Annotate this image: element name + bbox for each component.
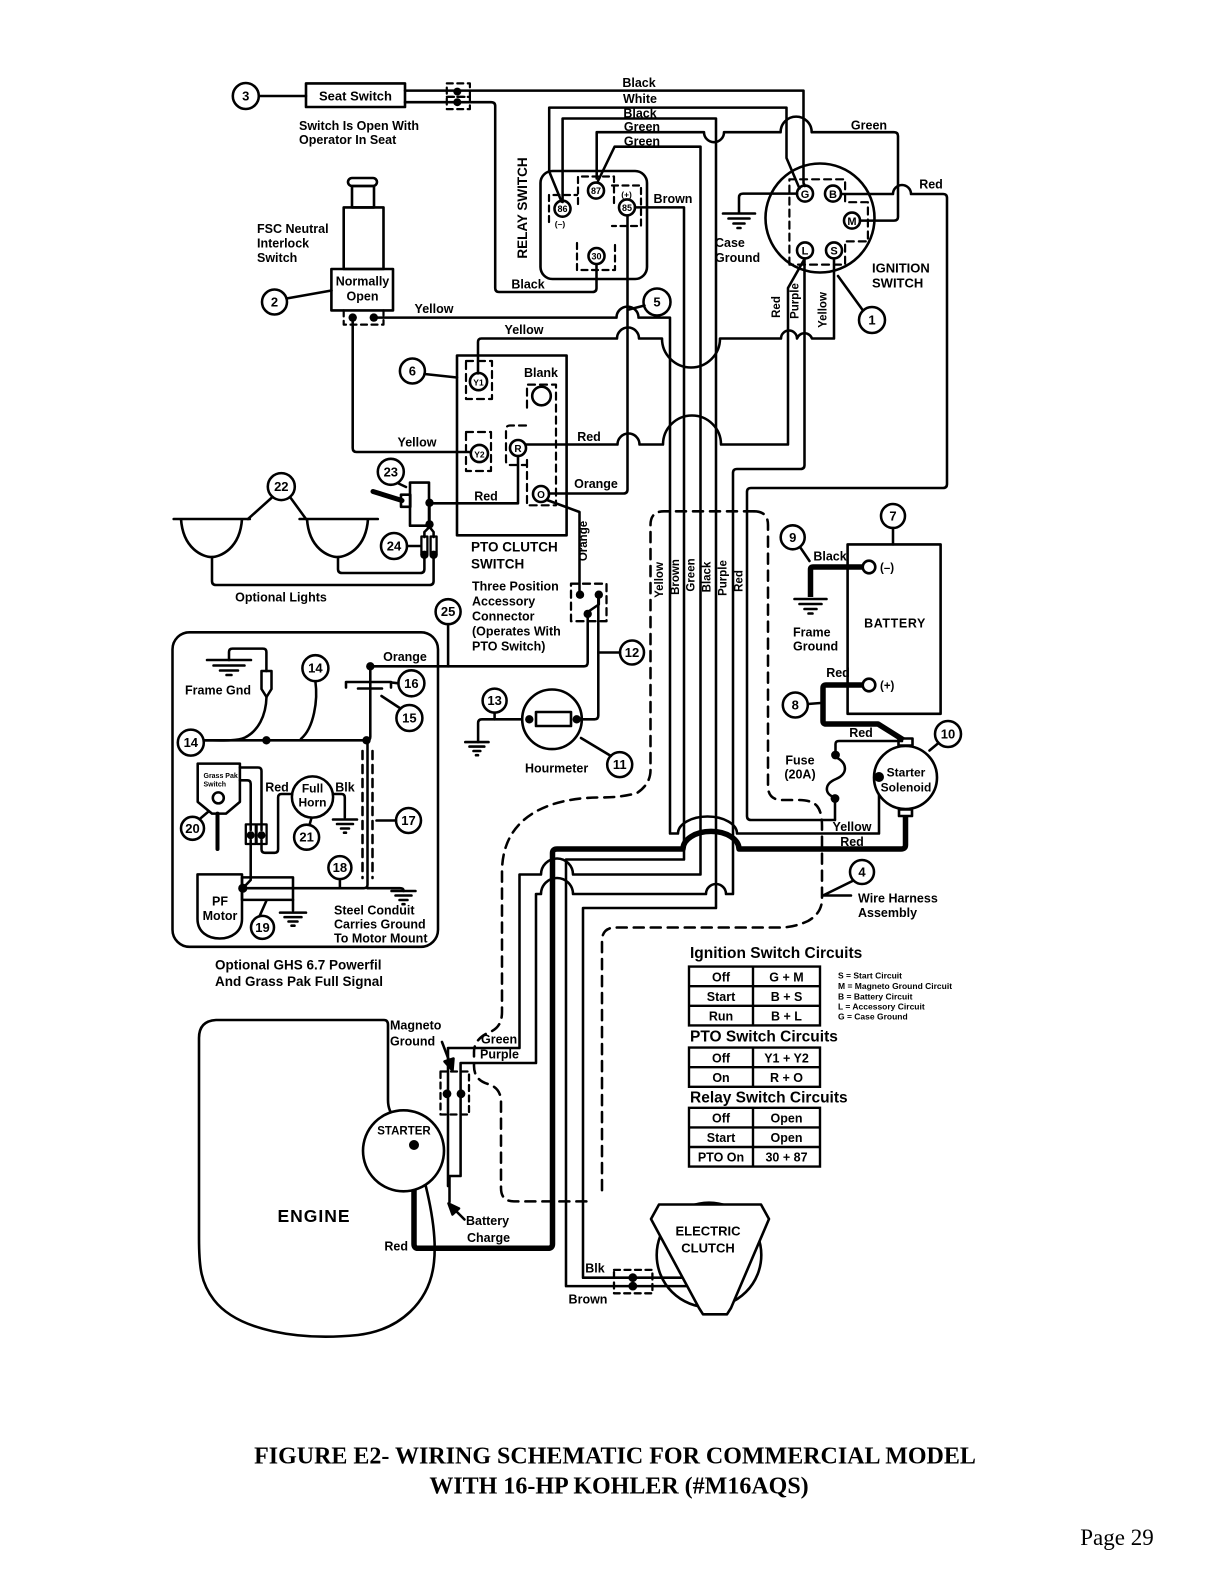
PTO terminal O <box>533 486 549 502</box>
callout circle 8 <box>783 693 808 718</box>
magneto ground arrow <box>442 1042 450 1063</box>
svg-text:23: 23 <box>384 464 398 479</box>
svg-text:Seat Switch: Seat Switch <box>319 89 392 104</box>
leader 2 <box>287 291 332 299</box>
callout circle 22 <box>268 473 295 500</box>
leader 22 left <box>248 497 273 519</box>
callout circle 15 <box>396 705 422 731</box>
svg-text:Purple: Purple <box>790 283 802 319</box>
svg-text:86: 86 <box>557 204 567 214</box>
PTO terminal Y1 <box>470 373 487 390</box>
svg-text:85: 85 <box>622 203 632 213</box>
svg-text:16: 16 <box>404 676 418 691</box>
wire red heavy (battery positive to starter solenoid top) <box>823 685 904 740</box>
svg-text:B = Battery Circuit: B = Battery Circuit <box>838 992 913 1002</box>
svg-text:Off: Off <box>712 1112 731 1126</box>
svg-text:O: O <box>537 490 545 501</box>
hourmeter terminal dots <box>525 715 581 723</box>
ignition terminal B <box>825 186 841 202</box>
svg-text:Open: Open <box>347 290 379 304</box>
svg-text:Carries Ground: Carries Ground <box>334 918 426 932</box>
leader 13 <box>493 713 496 720</box>
svg-text:Full: Full <box>302 782 323 796</box>
wire (hourmeter left terminal to ground) <box>478 719 529 742</box>
svg-text:Y1: Y1 <box>473 377 484 387</box>
svg-text:Open: Open <box>771 1112 803 1126</box>
wire harness assembly dashed outline right side <box>602 511 822 1192</box>
svg-text:Starter: Starter <box>887 766 926 780</box>
svg-text:PTO On: PTO On <box>698 1151 744 1165</box>
leader 22 right <box>290 497 306 519</box>
svg-text:L: L <box>802 246 809 258</box>
svg-text:R: R <box>514 444 522 455</box>
svg-text:RELAY SWITCH: RELAY SWITCH <box>515 157 530 258</box>
junction dots seat connector <box>453 88 461 107</box>
svg-text:Red: Red <box>840 835 864 849</box>
svg-text:Black: Black <box>813 550 846 564</box>
svg-text:17: 17 <box>401 813 415 828</box>
svg-text:8: 8 <box>792 698 799 713</box>
callout circle 6 <box>400 359 425 384</box>
svg-text:Page 29: Page 29 <box>1080 1525 1153 1550</box>
svg-text:PF: PF <box>212 895 228 909</box>
svg-text:Red: Red <box>265 781 289 795</box>
svg-text:Assembly: Assembly <box>858 906 917 920</box>
svg-text:B: B <box>829 189 837 201</box>
svg-text:Ground: Ground <box>390 1035 435 1049</box>
wire orange (PTO O to relay 85) <box>549 216 628 494</box>
svg-text:18: 18 <box>333 860 347 875</box>
wire (optional lights right lamp to connector 24) <box>338 555 424 573</box>
svg-text:Wire Harness: Wire Harness <box>858 892 938 906</box>
wire (connector right cell to full horn red) <box>262 794 293 853</box>
svg-text:Brown: Brown <box>654 192 693 206</box>
wire (ignition G to case ground) <box>739 194 797 213</box>
svg-text:2: 2 <box>271 295 278 310</box>
ground symbol (full horn) <box>333 820 357 833</box>
PTO terminal Y2 <box>471 445 488 462</box>
leader 3 <box>259 95 306 98</box>
svg-text:Yellow: Yellow <box>654 562 666 598</box>
svg-text:Blank: Blank <box>524 366 558 380</box>
svg-text:Magneto: Magneto <box>390 1019 442 1033</box>
svg-text:6: 6 <box>409 364 416 379</box>
frame ground symbol (battery) <box>795 599 827 614</box>
FSC neutral interlock switch body <box>348 178 377 186</box>
leader 8 <box>808 703 821 704</box>
starter terminal dot <box>409 1140 419 1150</box>
wire purple (ignition L to harness purple to starter magneto) <box>450 259 805 1203</box>
starter motor circle <box>363 1110 444 1191</box>
wire orange (PTO O to accessory connector) <box>547 500 580 591</box>
svg-text:Off: Off <box>712 971 731 985</box>
svg-text:Charge: Charge <box>467 1231 510 1245</box>
leader 1 <box>838 276 863 311</box>
wire (accessory connector to hourmeter) <box>577 598 599 719</box>
accessory connector dots <box>576 591 603 619</box>
FSC switch terminal block (dashed) <box>344 310 384 324</box>
engine outline <box>199 1020 435 1337</box>
svg-text:24: 24 <box>387 539 402 554</box>
svg-text:(20A): (20A) <box>784 768 815 782</box>
relay terminal 30 <box>589 248 605 264</box>
seat switch box <box>306 83 405 107</box>
grass pak switch body <box>198 764 240 814</box>
svg-text:Switch: Switch <box>204 782 227 789</box>
svg-text:PTO Switch): PTO Switch) <box>472 640 545 654</box>
wire (full horn black to ground) <box>333 794 345 818</box>
callout circle 17 <box>396 808 421 833</box>
frame gnd ground symbol (GHS) <box>207 660 251 675</box>
wire black heavy (battery negative to frame ground) <box>811 567 863 597</box>
leader 21 <box>310 818 312 825</box>
ignition terminal L <box>797 242 813 258</box>
wire black (seat switch to relay 30) <box>405 102 597 292</box>
wire (conduit ground run) <box>368 888 404 891</box>
wire red (PTO R to ignition L) <box>526 259 805 445</box>
leader 6 <box>425 374 458 378</box>
svg-text:B + L: B + L <box>771 1010 802 1024</box>
svg-text:20: 20 <box>185 821 199 836</box>
magneto connector dots <box>443 1089 466 1098</box>
svg-text:Steel Conduit: Steel Conduit <box>334 904 415 918</box>
table PTO switch circuits grid <box>689 1048 820 1087</box>
wire (14 top J curve) <box>301 682 316 739</box>
callout circle 23 <box>378 459 404 485</box>
battery box <box>848 544 941 713</box>
case ground symbol <box>723 214 755 229</box>
svg-text:Switch Is Open With: Switch Is Open With <box>299 119 419 133</box>
svg-text:Green: Green <box>624 135 660 149</box>
wire (float sender J curve to junction) <box>205 697 267 740</box>
svg-text:ELECTRIC: ELECTRIC <box>676 1224 742 1239</box>
svg-text:Ground: Ground <box>793 640 838 654</box>
svg-text:Red: Red <box>734 570 746 592</box>
grass pak connector dots <box>247 831 266 839</box>
svg-text:Open: Open <box>771 1131 803 1145</box>
svg-text:PTO CLUTCH: PTO CLUTCH <box>471 540 558 555</box>
svg-text:White: White <box>623 92 657 106</box>
FSC terminal dots <box>349 313 378 321</box>
grass pak connector cells <box>246 824 256 844</box>
callout circle 10 <box>935 721 961 747</box>
svg-text:Normally: Normally <box>336 275 390 289</box>
ignition terminal S <box>826 242 842 258</box>
svg-text:(–): (–) <box>880 563 894 575</box>
lights connector 24 bars <box>421 537 427 555</box>
svg-text:19: 19 <box>255 920 269 935</box>
callout circle 7 <box>881 504 905 528</box>
svg-text:Red: Red <box>577 430 601 444</box>
svg-text:12: 12 <box>625 645 639 660</box>
wire black 2 (relay 86 to harness black to electric clutch Blk) <box>563 119 716 1278</box>
PTO terminal R <box>510 440 526 456</box>
svg-text:S = Start Circuit: S = Start Circuit <box>838 971 902 981</box>
leader 17 <box>377 819 397 822</box>
seat switch connector (dashed, 2 cells) <box>447 83 470 109</box>
ground symbol below hourmeter wire <box>465 742 488 755</box>
leader 19 <box>260 901 267 917</box>
svg-text:14: 14 <box>308 661 323 676</box>
svg-text:Red: Red <box>919 178 943 192</box>
wire red (fuse top to starter solenoid) <box>835 741 902 819</box>
svg-text:S: S <box>830 246 837 258</box>
svg-text:30 + 87: 30 + 87 <box>765 1151 807 1165</box>
svg-text:(+): (+) <box>880 681 895 693</box>
wire white (relay 86 to ignition G) <box>549 108 799 202</box>
grass pak float rod <box>216 814 220 849</box>
svg-text:Three Position: Three Position <box>472 580 559 594</box>
svg-text:Frame Gnd: Frame Gnd <box>185 684 251 698</box>
battery positive terminal <box>863 679 876 692</box>
wire (PF terminal box to ground) <box>292 900 295 911</box>
svg-text:Start: Start <box>707 990 736 1004</box>
ignition terminal G <box>797 186 813 202</box>
svg-text:PTO Switch Circuits: PTO Switch Circuits <box>690 1029 838 1046</box>
callout circle 2 <box>262 290 287 315</box>
wire red (PTO R to lights toggle switch) <box>430 456 519 503</box>
svg-text:Green: Green <box>686 558 698 591</box>
svg-text:Black: Black <box>702 561 714 592</box>
svg-text:Brown: Brown <box>569 1293 608 1307</box>
svg-text:Battery: Battery <box>466 1214 509 1228</box>
svg-text:G = Case Ground: G = Case Ground <box>838 1012 908 1022</box>
svg-text:G: G <box>801 189 810 201</box>
svg-text:Connector: Connector <box>472 610 535 624</box>
wire (optional lights left lamp to connector 24) <box>212 555 434 585</box>
svg-text:SWITCH: SWITCH <box>471 557 524 572</box>
svg-text:ENGINE: ENGINE <box>277 1206 350 1226</box>
float sender element <box>262 671 272 697</box>
callout circle 18 <box>328 856 351 879</box>
callout circle 21 <box>294 825 319 850</box>
svg-text:Yellow: Yellow <box>505 323 544 337</box>
svg-text:(–): (–) <box>555 219 566 229</box>
svg-text:IGNITION: IGNITION <box>872 261 930 276</box>
svg-text:Hourmeter: Hourmeter <box>525 762 588 776</box>
callout circle 25 <box>436 599 461 624</box>
svg-text:Grass Pak: Grass Pak <box>204 773 238 780</box>
wire red (ignition B to fuse, battery circuit) <box>747 185 947 820</box>
fuse 20A element <box>827 757 845 798</box>
svg-text:Red: Red <box>849 726 873 740</box>
leader 15 <box>382 696 401 709</box>
wire (grass pak to connector right cell) <box>240 768 262 831</box>
svg-text:To Motor Mount: To Motor Mount <box>334 932 428 946</box>
svg-text:Purple: Purple <box>718 560 730 596</box>
grass pak switch knob <box>213 792 224 803</box>
callout circle 11 <box>607 752 632 777</box>
callout circle 5 <box>644 289 671 316</box>
leader 12 <box>598 651 620 654</box>
starter solenoid circle <box>874 746 937 809</box>
svg-text:L = Accessory Circuit: L = Accessory Circuit <box>838 1002 925 1012</box>
wire green 2 (relay 87 to harness green to starter magneto) <box>448 147 701 1186</box>
leader 4 <box>823 881 854 896</box>
svg-text:14: 14 <box>184 735 199 750</box>
optional lights left lamp <box>174 519 250 557</box>
callout circle 14 left <box>178 730 204 756</box>
wire red heavy (starter solenoid bottom to starter motor) <box>414 816 906 1248</box>
wire yellow 1 (FSC switch to harness yellow to starter solenoid) <box>374 307 879 834</box>
starter solenoid top terminal <box>899 739 913 746</box>
leader 5 <box>629 306 645 310</box>
svg-text:Blk: Blk <box>585 1262 605 1276</box>
wire (connector 24 to toggle switch) <box>424 503 433 537</box>
PTO terminal dashed brackets <box>466 361 556 505</box>
svg-text:87: 87 <box>591 186 601 196</box>
svg-text:21: 21 <box>299 830 313 845</box>
GHS junction dots <box>262 662 374 744</box>
svg-text:(Operates With: (Operates With <box>472 625 561 639</box>
svg-text:7: 7 <box>889 509 896 524</box>
ignition switch dashed outline <box>789 179 868 264</box>
leader 18 <box>339 879 342 888</box>
callout circle 4 <box>850 860 874 884</box>
PTO blank terminal <box>532 387 551 406</box>
svg-text:Ignition Switch Circuits: Ignition Switch Circuits <box>690 945 862 962</box>
wire (GHS junction line) <box>205 666 371 740</box>
svg-text:Optional Lights: Optional Lights <box>235 591 327 605</box>
svg-text:Operator In Seat: Operator In Seat <box>299 133 397 147</box>
svg-text:10: 10 <box>941 727 955 742</box>
leader 10 <box>930 743 939 751</box>
svg-text:Brown: Brown <box>670 559 682 595</box>
svg-text:Orange: Orange <box>574 477 618 491</box>
svg-text:Black: Black <box>623 107 656 121</box>
svg-text:Y1 + Y2: Y1 + Y2 <box>764 1052 809 1066</box>
svg-text:Orange: Orange <box>578 521 590 561</box>
wire yellow (FSC to PTO Y2) <box>353 318 471 452</box>
svg-text:Yellow: Yellow <box>398 436 437 450</box>
svg-text:Yellow: Yellow <box>833 820 872 834</box>
leader 16 <box>392 681 399 684</box>
wire brown (relay 85 to harness brown to electric clutch) <box>566 207 687 1286</box>
svg-text:CLUTCH: CLUTCH <box>681 1241 734 1256</box>
svg-text:13: 13 <box>487 693 501 708</box>
leader 9 <box>800 547 810 561</box>
svg-text:25: 25 <box>441 604 455 619</box>
wire orange (GHS powerfil to accessory connector) <box>370 617 587 666</box>
callout circle 9 <box>781 525 805 549</box>
svg-text:Red: Red <box>771 296 783 318</box>
svg-text:Start: Start <box>707 1131 736 1145</box>
relay switch box <box>541 171 648 279</box>
relay terminal 86 <box>555 201 571 217</box>
svg-text:Green: Green <box>851 119 887 133</box>
callout circle 1 <box>859 307 885 333</box>
toggle junction dots <box>425 499 433 529</box>
svg-text:Off: Off <box>712 1052 731 1066</box>
relay terminal 87 <box>588 183 604 199</box>
ground symbol (steel conduit) <box>392 891 416 904</box>
table relay switch circuits grid <box>689 1108 820 1167</box>
svg-text:Case: Case <box>715 236 745 250</box>
ignition terminal M <box>844 213 860 229</box>
svg-text:BATTERY: BATTERY <box>864 617 926 631</box>
svg-text:22: 22 <box>274 479 288 494</box>
leader 25 <box>447 624 450 666</box>
svg-text:Yellow: Yellow <box>818 292 830 328</box>
wire (connector left cell to PF motor junction) <box>243 840 251 888</box>
svg-text:30: 30 <box>591 252 601 262</box>
relay terminal 85 <box>619 199 635 215</box>
svg-text:And Grass Pak Full Signal: And Grass Pak Full Signal <box>215 974 383 989</box>
wire (grass pak mid to connector left cell) <box>240 780 251 830</box>
fuse terminal dots <box>831 751 840 803</box>
svg-text:Relay Switch Circuits: Relay Switch Circuits <box>690 1090 848 1107</box>
toggle switch 23 body <box>410 483 429 526</box>
svg-text:9: 9 <box>789 530 796 545</box>
electric clutch connector (dashed) <box>614 1270 652 1293</box>
wire (grass pak through conduit to PF motor) <box>243 740 368 888</box>
battery negative terminal <box>863 561 876 574</box>
inline connector 15 16 element <box>346 682 391 689</box>
svg-text:Solenoid: Solenoid <box>881 781 932 795</box>
PTO clutch switch box <box>457 356 567 536</box>
svg-text:SWITCH: SWITCH <box>872 276 923 291</box>
electric clutch circle <box>657 1203 762 1308</box>
svg-text:Optional GHS 6.7 Powerfil: Optional GHS 6.7 Powerfil <box>215 958 382 973</box>
magneto ground connector (dashed) <box>441 1072 470 1115</box>
starter solenoid bottom terminal <box>899 810 912 817</box>
toggle switch lever <box>401 495 410 507</box>
svg-text:Red: Red <box>826 666 850 680</box>
wire green 1 (relay 87 to ignition M) <box>597 117 898 221</box>
wire harness assembly dashed outline left capsule side <box>474 511 822 1201</box>
svg-text:Purple: Purple <box>480 1048 519 1062</box>
svg-text:Green: Green <box>481 1033 517 1047</box>
wire yellow 2 (PTO Y1 to ignition S) <box>478 259 834 374</box>
svg-text:(+): (+) <box>621 190 632 200</box>
callout circle 13 <box>483 689 507 713</box>
PF motor terminal box <box>242 877 293 900</box>
svg-text:Blk: Blk <box>335 781 355 795</box>
clutch connector dots <box>628 1273 637 1290</box>
optional lights right lamp <box>300 519 378 557</box>
callout circle 16 <box>398 670 424 696</box>
steel conduit dashed pair <box>363 751 373 878</box>
svg-text:Horn: Horn <box>299 796 327 810</box>
wire accessory connector internal jog <box>588 598 599 612</box>
lights connector dots <box>420 551 438 559</box>
leader 24 <box>407 545 421 548</box>
svg-text:Run: Run <box>709 1010 733 1024</box>
svg-text:Red: Red <box>384 1240 408 1254</box>
svg-text:Ground: Ground <box>715 251 760 265</box>
svg-text:STARTER: STARTER <box>377 1126 431 1138</box>
callout circle 20 <box>181 817 204 840</box>
ground symbol (PF motor) <box>280 913 306 926</box>
callout circle 12 <box>620 641 644 665</box>
svg-text:FSC Neutral: FSC Neutral <box>257 222 329 236</box>
svg-text:R + O: R + O <box>770 1071 803 1085</box>
svg-text:5: 5 <box>653 295 660 310</box>
GHS optional box (rounded) <box>173 632 439 947</box>
PF motor body <box>198 874 243 938</box>
callout circle 14 top <box>302 655 328 681</box>
callout circle 3 <box>233 83 259 109</box>
svg-text:WITH 16-HP KOHLER (#M16AQS): WITH 16-HP KOHLER (#M16AQS) <box>429 1474 808 1500</box>
three position accessory connector (dashed box) <box>571 584 607 622</box>
svg-text:M = Magneto Ground Circuit: M = Magneto Ground Circuit <box>838 981 952 991</box>
svg-text:G + M: G + M <box>769 971 803 985</box>
svg-text:Switch: Switch <box>257 251 297 265</box>
starter solenoid left terminal dot <box>874 772 884 782</box>
svg-text:Yellow: Yellow <box>415 302 454 316</box>
svg-text:Frame: Frame <box>793 626 831 640</box>
svg-text:On: On <box>712 1071 729 1085</box>
